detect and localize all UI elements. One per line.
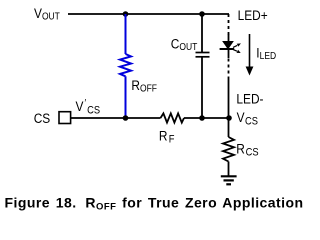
wire blue ROFF lower lead bbox=[125, 76, 127, 118]
node junction top ROFF tap bbox=[123, 11, 129, 17]
node VCS junction bbox=[226, 115, 232, 121]
wire COUT lower lead bbox=[201, 57, 203, 118]
svg-text:CS: CS bbox=[34, 110, 51, 126]
node junction ROFF bottom bbox=[123, 115, 129, 121]
wire LED cathode dashed segment bbox=[228, 59, 230, 81]
wire blue ROFF upper lead bbox=[125, 14, 127, 54]
wire RCS to ground bbox=[228, 162, 230, 177]
svg-text:LED-: LED- bbox=[236, 91, 263, 107]
wire LED cathode solid stub bbox=[228, 49, 230, 58]
wire CS rail right bbox=[184, 117, 229, 119]
diode LED cathode bar bbox=[220, 48, 235, 50]
resistor RCS zigzag bbox=[223, 137, 234, 162]
wire CS rail left bbox=[71, 117, 161, 119]
diode LED emission arrows bbox=[233, 43, 241, 53]
resistor ROFF (blue zigzag) bbox=[120, 54, 131, 76]
wire LED anode dashed segment bbox=[228, 14, 230, 35]
pin CS box bbox=[59, 112, 71, 124]
wire LED- to VCS node bbox=[228, 80, 230, 119]
capacitor COUT plates bbox=[196, 53, 210, 57]
node junction top COUT tap bbox=[199, 11, 205, 17]
wire COUT upper lead bbox=[201, 14, 203, 53]
svg-text:LED+: LED+ bbox=[238, 7, 268, 23]
wire LED anode solid stub bbox=[228, 35, 230, 43]
node junction COUT bottom bbox=[199, 115, 205, 121]
arrow ILED current bbox=[246, 34, 254, 76]
svg-text:Figure 18.ROFF for True Zero A: Figure 18.ROFF for True Zero Application bbox=[5, 195, 304, 213]
resistor RF zigzag bbox=[161, 113, 185, 122]
wire top rail VOUT bbox=[68, 13, 229, 15]
diode LED triangle bbox=[223, 41, 233, 48]
wire VCS to RCS bbox=[228, 118, 230, 137]
ground symbol bbox=[221, 176, 237, 184]
